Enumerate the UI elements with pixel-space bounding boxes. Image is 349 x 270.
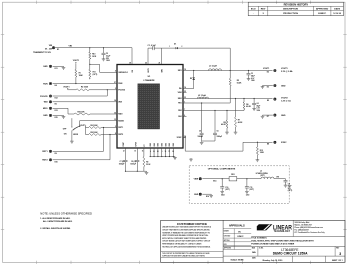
- svg-text:SYNC: SYNC: [281, 142, 287, 144]
- svg-text:E7: E7: [267, 116, 269, 118]
- svg-text:(OPT): (OPT): [93, 74, 98, 76]
- svg-text:SS2: SS2: [178, 116, 181, 118]
- svg-text:1500pF: 1500pF: [130, 164, 136, 166]
- svg-text:17: 17: [169, 151, 171, 153]
- svg-text:C8: C8: [288, 183, 290, 185]
- svg-text:RDT2: RDT2: [118, 134, 123, 136]
- svg-text:GND: GND: [281, 85, 286, 87]
- svg-text:DEMO CIRCUIT 1359A: DEMO CIRCUIT 1359A: [273, 252, 308, 256]
- svg-text:C11: C11: [250, 187, 253, 189]
- svg-text:C1, 0.1µF: C1, 0.1µF: [148, 45, 157, 47]
- svg-text:GND: GND: [43, 115, 48, 117]
- svg-text:MFG: MFG: [224, 244, 227, 246]
- svg-text:1210: 1210: [246, 194, 250, 196]
- svg-text:REVISION HISTORY: REVISION HISTORY: [284, 2, 309, 6]
- svg-text:E12: E12: [55, 98, 58, 100]
- svg-text:SYNC: SYNC: [177, 137, 183, 139]
- svg-text:C9 (O): C9 (O): [131, 161, 136, 163]
- svg-text:WDI: WDI: [44, 102, 48, 104]
- svg-text:WDI: WDI: [118, 102, 122, 104]
- svg-text:40.2K: 40.2K: [221, 123, 226, 126]
- svg-text:1206: 1206: [106, 60, 110, 62]
- svg-text:CHECKED: CHECKED: [224, 235, 230, 237]
- svg-text:GND: GND: [43, 66, 48, 68]
- svg-text:ALL CAPACITORS ARE IN 0402.: ALL CAPACITORS ARE IN 0402.: [43, 220, 73, 223]
- svg-text:CUSTOMER NOTICE: CUSTOMER NOTICE: [177, 222, 207, 226]
- svg-text:E6: E6: [55, 103, 57, 105]
- svg-text:L2 1.5µH: L2 1.5µH: [198, 95, 206, 97]
- svg-text:TITLE: SCHEMATIC: TITLE: SCHEMATIC: [251, 236, 267, 239]
- svg-text:60.4K: 60.4K: [237, 81, 242, 84]
- svg-text:NOTE: UNLESS OTHERWISE SPECIFI: NOTE: UNLESS OTHERWISE SPECIFIED: [40, 211, 92, 215]
- svg-text:1000pF: 1000pF: [198, 136, 204, 138]
- svg-text:0603: 0603: [221, 194, 225, 196]
- svg-text:3.3V @ 0.8A: 3.3V @ 0.8A: [281, 70, 293, 73]
- svg-text:40.2K: 40.2K: [246, 105, 251, 108]
- svg-text:GND: GND: [194, 194, 199, 196]
- svg-text:E3: E3: [267, 87, 269, 89]
- svg-text:2. INSTALL SHUNTS AS SHOWN.: 2. INSTALL SHUNTS AS SHOWN.: [40, 227, 71, 230]
- svg-text:VOUT1: VOUT1: [73, 60, 79, 62]
- svg-text:VIN: VIN: [49, 45, 53, 47]
- svg-text:(OPT): (OPT): [225, 189, 230, 191]
- svg-text:D2: D2: [190, 78, 192, 80]
- svg-text:L1 5.0µH: L1 5.0µH: [209, 66, 217, 68]
- svg-text:20: 20: [172, 151, 174, 153]
- svg-text:FB2: FB2: [178, 110, 181, 112]
- svg-text:SHEET 1 OF 1: SHEET 1 OF 1: [332, 260, 343, 262]
- svg-text:E10: E10: [55, 161, 58, 163]
- svg-text:RUN: RUN: [43, 83, 48, 85]
- svg-text:TRANSIENT TO 50V: TRANSIENT TO 50V: [33, 51, 52, 54]
- svg-text:10: 10: [134, 151, 136, 153]
- svg-text:R8 100K: R8 100K: [90, 132, 98, 134]
- svg-text:DUAL MONOLITHIC STEP-DOWN SWIT: DUAL MONOLITHIC STEP-DOWN SWITCHING REGU…: [251, 240, 314, 243]
- svg-text:Monday, July 19, 2010: Monday, July 19, 2010: [263, 260, 283, 262]
- svg-text:(OPT): (OPT): [260, 175, 265, 177]
- svg-text:PRODUCTION: PRODUCTION: [283, 13, 298, 15]
- svg-text:POWER-ON RESET AND WATCH DOG T: POWER-ON RESET AND WATCH DOG TIMER: [251, 243, 294, 246]
- svg-text:VOUT1: VOUT1: [80, 125, 86, 127]
- svg-text:MDO: MDO: [43, 108, 48, 110]
- svg-text:OPTIONAL COMPONENTS: OPTIONAL COMPONENTS: [208, 168, 236, 171]
- svg-text:APPROVALS: APPROVALS: [229, 224, 245, 228]
- svg-text:RT: RT: [144, 144, 146, 146]
- svg-text:E8: E8: [267, 143, 269, 145]
- svg-text:(OPT): (OPT): [250, 189, 255, 191]
- svg-text:FB1: FB1: [231, 174, 234, 176]
- svg-text:5-19-10: 5-19-10: [333, 13, 341, 15]
- svg-text:E13: E13: [55, 110, 58, 112]
- svg-text:VOUT1: VOUT1: [63, 87, 69, 89]
- svg-text:BST1: BST1: [148, 68, 150, 72]
- svg-text:L3: L3: [260, 171, 262, 173]
- svg-text:E11: E11: [55, 68, 58, 70]
- svg-text:R9: R9: [146, 162, 148, 164]
- svg-text:12: 12: [123, 151, 125, 153]
- svg-text:1.2V @ 1A: 1.2V @ 1A: [281, 100, 291, 103]
- svg-text:26: 26: [153, 151, 155, 153]
- svg-text:3: 3: [339, 252, 341, 256]
- svg-text:1. ALL RESISTORS ARE IN 0402.: 1. ALL RESISTORS ARE IN 0402.: [40, 217, 70, 220]
- svg-text:1206: 1206: [251, 80, 255, 82]
- svg-text:SW1: SW1: [161, 69, 163, 73]
- svg-text:68µF: 68µF: [251, 75, 255, 77]
- svg-text:PGOOD: PGOOD: [118, 90, 125, 92]
- svg-text:RDT1: RDT1: [42, 151, 48, 153]
- svg-text:TECHNOLOGY: TECHNOLOGY: [274, 231, 291, 233]
- svg-text:5V - 30V: 5V - 30V: [45, 48, 53, 50]
- svg-text:1000pF: 1000pF: [217, 136, 223, 138]
- svg-text:SW2: SW2: [178, 98, 182, 100]
- svg-text:JUNE P.: JUNE P.: [318, 13, 327, 15]
- svg-text:SIZE: SIZE: [252, 248, 255, 250]
- svg-text:VOUT1: VOUT1: [281, 68, 289, 70]
- svg-text:E4: E4: [55, 84, 57, 87]
- svg-text:1206: 1206: [257, 110, 261, 112]
- svg-text:1500pF: 1500pF: [119, 164, 125, 166]
- svg-text:LT3648EFE: LT3648EFE: [143, 79, 155, 82]
- svg-text:68µF: 68µF: [257, 105, 261, 107]
- svg-text:DESCRIPTION: DESCRIPTION: [283, 8, 298, 10]
- svg-text:R2 100K: R2 100K: [81, 87, 89, 89]
- svg-text:MDO: MDO: [118, 114, 123, 116]
- svg-text:FB1: FB1: [178, 103, 181, 105]
- svg-text:E16: E16: [206, 196, 209, 198]
- svg-text:N/A: N/A: [252, 251, 256, 254]
- svg-text:RDT1: RDT1: [118, 127, 123, 129]
- svg-text:VIN: VIN: [69, 45, 73, 47]
- svg-text:MODE: MODE: [118, 120, 124, 122]
- svg-text:APPROVED: APPROVED: [316, 7, 329, 10]
- svg-text:C7 (O): C7 (O): [120, 161, 125, 163]
- svg-text:SCALE: NONE: SCALE: NONE: [230, 259, 244, 262]
- svg-text:E9: E9: [55, 153, 57, 155]
- svg-text:R4 100K: R4 100K: [77, 111, 85, 114]
- svg-text:28: 28: [157, 151, 159, 153]
- svg-text:VOUT1: VOUT1: [263, 68, 269, 70]
- svg-text:VOUT2: VOUT2: [281, 98, 289, 100]
- svg-text:DATE: DATE: [334, 7, 340, 10]
- svg-text:R6 100K: R6 100K: [90, 125, 98, 127]
- svg-text:11: 11: [142, 151, 144, 153]
- svg-text:E15: E15: [55, 117, 58, 119]
- svg-text:C6: C6: [217, 131, 219, 133]
- svg-text:C10: C10: [225, 187, 228, 189]
- svg-text:E14: E14: [213, 179, 216, 182]
- svg-text:RUN: RUN: [118, 83, 123, 85]
- svg-text:CWDT: CWDT: [123, 142, 125, 147]
- svg-text:C5: C5: [199, 131, 201, 133]
- svg-text:PGOOD: PGOOD: [40, 96, 48, 98]
- svg-text:ECO: ECO: [251, 8, 256, 10]
- svg-text:D1: D1: [174, 43, 176, 45]
- svg-text:40.2K: 40.2K: [238, 121, 243, 124]
- svg-text:E2: E2: [267, 71, 269, 73]
- svg-text:MODE: MODE: [73, 134, 78, 136]
- svg-text:JUNE P.: JUNE P.: [237, 236, 244, 238]
- svg-text:REV: REV: [261, 8, 266, 10]
- svg-text:E5: E5: [267, 100, 269, 102]
- svg-text:RDT2: RDT2: [42, 160, 48, 162]
- svg-text:E1: E1: [57, 49, 59, 51]
- svg-text:VIN2: VIN2: [178, 92, 182, 94]
- svg-text:10: 10: [165, 151, 167, 153]
- svg-text:68µF: 68µF: [288, 186, 292, 188]
- svg-text:GND/UVLO: GND/UVLO: [118, 72, 128, 74]
- svg-text:(OPT): (OPT): [288, 190, 293, 192]
- svg-text:SW1: SW1: [178, 70, 182, 72]
- svg-text:GND: GND: [281, 115, 286, 117]
- svg-text:VEMI: VEMI: [194, 179, 199, 181]
- svg-text:IC NO.: IC NO.: [259, 248, 264, 250]
- svg-text:REV: REV: [336, 248, 339, 250]
- svg-text:C3: C3: [251, 73, 253, 75]
